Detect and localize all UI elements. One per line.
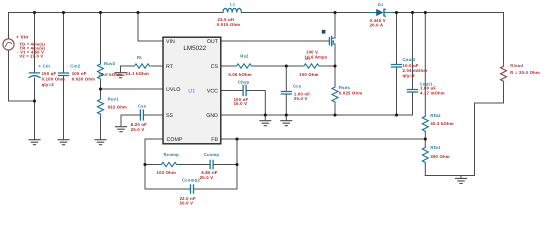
resistor Rfb1 [422,146,428,164]
capacitor Ccomp2 plates [191,185,194,193]
node top Cin [33,11,36,14]
node CS filter junction [285,64,288,67]
wire Cbyp to GND rail [246,91,265,121]
resistor Rs2 [235,64,253,68]
svg-text:Rs2: Rs2 [240,54,248,59]
svg-text:25.0 V: 25.0 V [131,127,145,132]
svg-text:Ccomp2: Ccomp2 [182,178,200,183]
voltage source Vin circle [3,39,14,50]
label M1 swap icon [322,30,326,34]
svg-text:25.0 V: 25.0 V [294,96,308,101]
svg-text:VIN: VIN [166,39,175,45]
wire RT pin to Rt [151,65,163,67]
svg-text:10.0 uF: 10.0 uF [403,63,419,68]
wire GND rail [221,92,413,115]
svg-text:Rfb2: Rfb2 [430,113,440,118]
ground Ruv1 [95,140,106,145]
resistor Ruv1 [98,98,104,117]
node CS Rsns junction [333,64,336,67]
resistor Rt [133,64,151,68]
svg-text:Cbyp: Cbyp [238,79,249,84]
svg-text:0.025 Ohm: 0.025 Ohm [339,90,362,95]
wire UVLO divider branch [100,13,102,140]
wire Cin2 branch [63,13,65,140]
svg-text:0.100 Ohm: 0.100 Ohm [42,76,65,81]
svg-text:VCC: VCC [207,88,218,94]
svg-text:Rfb1: Rfb1 [430,145,440,150]
wire VCC pin to Cbyp [221,90,243,92]
ground Cin [29,140,40,145]
resistor Rload [501,63,507,85]
svg-text:6.80 nF: 6.80 nF [201,170,217,175]
svg-text:100 Ohm: 100 Ohm [299,72,318,77]
svg-text:L1: L1 [230,2,235,7]
svg-text:20.0 A: 20.0 A [370,22,384,27]
svg-text:Rt: Rt [137,55,142,60]
svg-text:CS: CS [211,64,218,70]
svg-text:390 Ohm: 390 Ohm [430,154,449,159]
ground Cin2 [58,140,69,145]
svg-text:25.0 V: 25.0 V [200,175,214,180]
svg-text:qty=2: qty=2 [403,73,415,78]
svg-text:103 Ohm: 103 Ohm [157,170,176,175]
transistor M1 gate bar [328,38,331,45]
ground Ccs [281,121,292,126]
node comp right [235,163,238,166]
svg-text:50.0 V: 50.0 V [180,201,194,206]
svg-text:45.3 kOhm: 45.3 kOhm [430,121,453,126]
ground Rt [115,73,126,78]
resistor Rfb2 [422,116,428,132]
node top VIN riser [136,11,139,14]
svg-text:Cout2: Cout2 [403,57,416,62]
wire Rload bottom lead [503,85,505,104]
node UVLO junction [99,87,102,90]
node top Cin2 [62,11,65,14]
node Vin bend [33,99,36,102]
node top divider [99,11,102,14]
svg-text:GND: GND [206,113,218,119]
wire Cin branch [34,13,36,140]
capacitor Cout2 plates [392,65,402,68]
svg-text:Rload: Rload [510,63,523,68]
capacitor Ccs plates [281,92,291,95]
wire feedback divider [424,13,426,176]
node FB divider [424,137,427,140]
diode D1 body [376,9,383,16]
wire comp lower branch and right leg [145,139,237,189]
node Vout Cout1 [411,11,414,14]
wire Rt to ground [121,66,134,73]
svg-text:8.20 nF: 8.20 nF [131,122,147,127]
svg-text:4.17 mOhm: 4.17 mOhm [420,90,445,95]
wire Rsns branch [334,66,336,115]
resistor Rsns [332,87,338,102]
svg-text:COMP: COMP [167,137,183,143]
wire Cout2 branch [396,13,398,116]
inductor L1 [223,8,241,12]
svg-text:24.1 kOhm: 24.1 kOhm [126,71,149,76]
svg-text:10.0 kOhm: 10.0 kOhm [99,72,122,77]
capacitor Cin plates [29,73,40,78]
svg-text:OUT: OUT [207,39,218,45]
ground Css [116,127,127,132]
node FB comp [235,137,238,140]
wire top rail D1 to Rload corner [392,13,504,64]
wire top rail L1 to D1 [241,12,368,14]
node Vout divider [424,11,427,14]
IC U1 LM5022 body [163,37,221,144]
node switch drain [333,11,336,14]
svg-text:Rsns: Rsns [339,85,350,90]
svg-text:Ccomp: Ccomp [204,152,219,157]
resistor Rcomp [160,162,179,166]
resistor R2 100 Ohm [303,64,321,68]
svg-text:Cin2: Cin2 [70,63,80,68]
diode D1 schottky cathode [383,9,384,17]
wire OUT pin to gate [221,40,329,42]
svg-text:Ccs: Ccs [293,84,301,89]
node GND Ccs [285,113,288,116]
ground output [456,178,467,183]
capacitor Cin2 plates [59,73,69,76]
svg-text:932 Ohm: 932 Ohm [108,105,127,110]
capacitor Css plates [140,110,143,120]
wire Ccs branch [285,66,287,121]
node GND Cout2 [395,113,398,116]
svg-text:10.6 Amps: 10.6 Amps [305,55,328,60]
wire comp upper branch [145,164,237,166]
wire COMP pin and left leg [145,139,163,189]
svg-text:16.0 V: 16.0 V [234,101,248,106]
node Vout Cout2 [395,11,398,14]
svg-text:R = 20.0 Ohm: R = 20.0 Ohm [510,70,540,75]
svg-text:150 uF: 150 uF [42,71,57,76]
transistor M1 drain source stubs [332,37,335,45]
svg-text:Rcomp: Rcomp [164,152,179,157]
transistor M1 channel bar [330,36,333,45]
capacitor Ccomp plates [210,160,213,168]
wire Vin bottom bend [9,50,35,101]
wire MOSFET drain and source [334,13,336,67]
svg-text:SS: SS [166,113,173,119]
wire output bottom return [425,103,503,176]
svg-text:Ruv2: Ruv2 [104,61,115,66]
wire FB rail [221,138,425,140]
svg-text:+ Vin: + Vin [16,35,28,40]
wire Css to ground [121,115,140,127]
svg-text:UVLO: UVLO [166,87,180,93]
svg-text:0.015 Ohm: 0.015 Ohm [217,22,240,27]
svg-text:Css: Css [138,103,146,108]
wire Cout1 branch [412,13,414,116]
svg-text:Ruv1: Ruv1 [108,97,119,102]
resistor Ruv2 [98,62,104,81]
wire CS row [221,65,335,67]
capacitor Cbyp plates [243,86,246,96]
svg-text:100 V: 100 V [306,49,318,54]
capacitor Cout1 plates [408,90,418,93]
svg-text:FB: FB [211,137,218,143]
wire output ground stub [460,176,462,179]
svg-text:U1: U1 [188,88,195,94]
node GND Cbyp [264,113,267,116]
node comp left [143,163,146,166]
node GND Rsns [333,113,336,116]
svg-text:RT: RT [166,64,173,70]
wire SS pin to Css [144,114,163,116]
diode D1 leads [368,12,392,14]
svg-text:LM5022: LM5022 [183,45,206,52]
svg-text:5.06 kOhm: 5.06 kOhm [228,72,251,77]
svg-text:V2 = 27.0 V: V2 = 27.0 V [20,54,44,59]
wire top rail from Vin to L1 [9,13,224,42]
svg-text:qty=2: qty=2 [42,82,54,87]
ground GND pin [260,121,271,126]
wire UVLO pin connection [101,88,164,90]
svg-text:D1: D1 [378,3,384,8]
svg-text:0.030 Ohm: 0.030 Ohm [72,76,95,81]
voltage source Vin waveform [5,42,11,46]
wire VIN pin riser [138,13,163,42]
transistor M1 source arrow [332,40,334,43]
svg-text:2.04 mOhm: 2.04 mOhm [403,68,428,73]
svg-text:100 nF: 100 nF [72,71,87,76]
svg-text:+ Cin: + Cin [39,63,51,68]
